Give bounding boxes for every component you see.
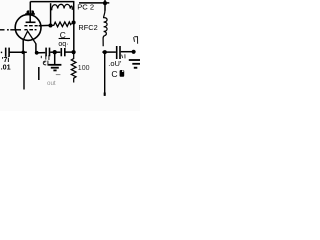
RFC2 coil bbox=[104, 10, 107, 36]
node dot A bbox=[48, 23, 52, 27]
grid G2 dashes bbox=[24, 25, 37, 27]
PC2 resistor bbox=[52, 22, 71, 27]
plate cap wire bbox=[29, 2, 31, 14]
resistor R vertical zigzag bbox=[71, 52, 76, 82]
junction dot D bbox=[53, 50, 57, 54]
junction blob bbox=[103, 1, 107, 5]
label C6 blob bbox=[120, 70, 125, 77]
filament bbox=[23, 31, 36, 43]
label out bbox=[47, 75, 60, 87]
long vertical to bottom bbox=[104, 53, 106, 96]
plate cap bbox=[25, 10, 35, 14]
ground G2 bars bbox=[129, 60, 140, 64]
top wire bbox=[30, 1, 74, 3]
junction dot E bbox=[103, 50, 107, 54]
node dot C bbox=[72, 50, 76, 54]
svg-text:100: 100 bbox=[78, 65, 90, 72]
wire bbox=[56, 51, 61, 53]
cap C2 bbox=[46, 48, 49, 57]
plate bbox=[26, 15, 36, 23]
grid G1 dashes bbox=[24, 29, 36, 31]
svg-text:oq·: oq· bbox=[58, 41, 68, 48]
filament lead left bbox=[22, 39, 24, 52]
tube V1 envelope bbox=[15, 15, 41, 41]
cap C6 bbox=[117, 46, 120, 59]
grid lead dash-dot bbox=[0, 29, 21, 31]
RFC2 bottom lead bbox=[103, 36, 104, 47]
tick marks right bbox=[134, 37, 138, 44]
wire bbox=[66, 51, 73, 53]
stub lead bbox=[38, 67, 40, 80]
svg-text:out: out bbox=[47, 80, 56, 87]
ground G1 bars bbox=[48, 65, 61, 71]
svg-text:.01: .01 bbox=[1, 62, 11, 71]
RFC2 top wire bbox=[79, 2, 109, 4]
wire left bus bbox=[10, 51, 27, 53]
filament lead right bbox=[35, 43, 37, 52]
vertical foot bbox=[104, 93, 106, 96]
filament right dot bbox=[35, 51, 39, 55]
blocking line vertical bbox=[73, 22, 75, 52]
ground G2 blob bbox=[134, 67, 138, 69]
wire right bus bbox=[35, 52, 45, 54]
wire from cap C6 bbox=[121, 51, 133, 53]
cap C3 bbox=[61, 48, 65, 56]
ground G1 stem bbox=[54, 52, 56, 64]
left cap C1 bbox=[6, 48, 9, 57]
left cap speck bbox=[1, 51, 2, 53]
svg-text:RFC2: RFC2 bbox=[78, 23, 97, 32]
svg-text:PC 2: PC 2 bbox=[77, 3, 94, 12]
PC2 right riser bbox=[73, 2, 75, 21]
PC2 left riser bbox=[50, 3, 52, 24]
svg-text:.oU': .oU' bbox=[108, 59, 122, 68]
plate lead to node bbox=[39, 24, 50, 26]
svg-text:C: C bbox=[111, 69, 117, 79]
filament down lead bbox=[23, 52, 25, 89]
PC2 coil bbox=[52, 4, 73, 10]
cap C2 label bbox=[41, 55, 49, 66]
wire bbox=[50, 51, 53, 53]
filament left dot bbox=[21, 51, 25, 55]
wire to cap C6 bbox=[106, 51, 116, 53]
stub bbox=[102, 51, 105, 53]
node dot B bbox=[72, 20, 76, 24]
end dot bbox=[132, 50, 136, 54]
RFC2 feed vertical bbox=[104, 0, 106, 11]
